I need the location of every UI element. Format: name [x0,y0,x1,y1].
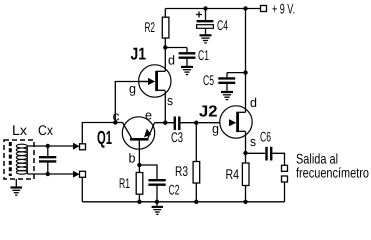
svg-text:+: + [196,8,203,22]
svg-text:c: c [113,109,121,124]
output terminal top square [282,165,288,171]
ground (C1) [181,67,193,75]
capacitor C2 [139,165,165,202]
wire: top terminal up and right to node c [82,123,122,144]
output terminal bottom square [282,176,288,182]
resistor R2 [162,9,169,48]
svg-text:s: s [167,93,173,108]
node s junction dot [243,151,247,155]
svg-text:C6: C6 [260,129,271,145]
svg-text:J2: J2 [199,104,218,121]
wire: +9V top rail [165,8,260,10]
capacitor C4 (electrolytic) [197,9,214,35]
wire: bottom ground rail [82,201,284,203]
svg-text:J1: J1 [131,45,147,64]
wire: Lx bottom to input terminal [27,173,74,175]
svg-text:d: d [250,95,257,110]
svg-text:C3: C3 [171,129,183,145]
ground (rail) [152,202,163,215]
svg-text:R4: R4 [226,166,240,182]
wire: J2 source down to node s [245,131,247,153]
ground (C4) [200,35,212,43]
capacitor C6 [246,147,285,166]
node: C5 junction dot [243,70,247,74]
resistor R4 [242,153,249,202]
inductor Lx core [9,142,12,176]
svg-text:s: s [250,134,256,149]
svg-text:R2: R2 [145,19,156,35]
node: C2 rail junction dot [155,200,159,204]
svg-text:frecuencímetro: frecuencímetro [296,165,369,181]
svg-text:g: g [129,81,136,96]
svg-text:d: d [168,53,175,68]
node: R1 rail junction dot [137,200,141,204]
wire: J1 source down to node e [164,91,166,123]
ground (C5) [221,92,233,100]
arrow into top input terminal [73,143,80,150]
node: R3 top junction dot [194,121,198,125]
svg-text:Cx: Cx [38,122,53,138]
wire: bottom output terminal to ground rail [284,182,286,202]
node b junction dot [137,163,141,167]
svg-text:e: e [145,108,152,123]
node e junction dot [163,121,167,125]
capacitor C3 [175,117,180,131]
wire: bottom terminal down to ground rail [81,177,83,202]
JFET J2 [220,106,252,138]
transistor Q1 [122,117,154,165]
node: R2/C1/J1 drain junction dot [163,45,167,49]
capacitor C1 [165,48,195,67]
svg-text:R1: R1 [119,175,130,191]
node: C4 top rail junction dot [203,6,207,10]
node: Cx top junction [46,144,50,148]
node: R4 rail junction dot [243,200,247,204]
input terminal bottom square [80,171,86,177]
+9V terminal square [261,6,267,12]
wire: node c up to J1 gate [115,82,148,123]
svg-text:Lx: Lx [12,122,27,138]
svg-text:C2: C2 [169,182,180,198]
input terminal top square [80,144,86,150]
wire: C3 to J2 gate [181,122,221,124]
svg-text:C4: C4 [217,17,228,33]
resistor R1 [136,165,143,202]
node: top rail right junction dot [243,6,247,10]
node c junction dot [113,120,117,124]
wire: rail down to J2 drain [245,9,247,113]
JFET J1 [139,65,171,97]
node: Cx bottom junction [46,172,50,176]
svg-text:Q1: Q1 [97,128,112,149]
svg-text:C1: C1 [198,47,209,63]
ground (shield) [11,179,23,195]
resistor R3 [193,123,200,202]
svg-text:C5: C5 [203,72,214,88]
arrow into bottom input terminal [73,171,80,178]
svg-text:g: g [212,121,219,136]
shield box around Lx [4,140,34,179]
svg-text:+ 9 V.: + 9 V. [272,1,295,17]
wire: Q1 emitter to C3 [155,122,175,124]
capacitor C5 [218,73,245,92]
capacitor Cx [39,146,56,174]
svg-text:R3: R3 [175,163,188,179]
inductor Lx [16,144,27,174]
wire: Lx top to input terminal [27,145,74,147]
wire: J1 drain up to node R2 [164,48,166,72]
node: R3 rail junction dot [194,200,198,204]
svg-text:b: b [129,151,136,166]
